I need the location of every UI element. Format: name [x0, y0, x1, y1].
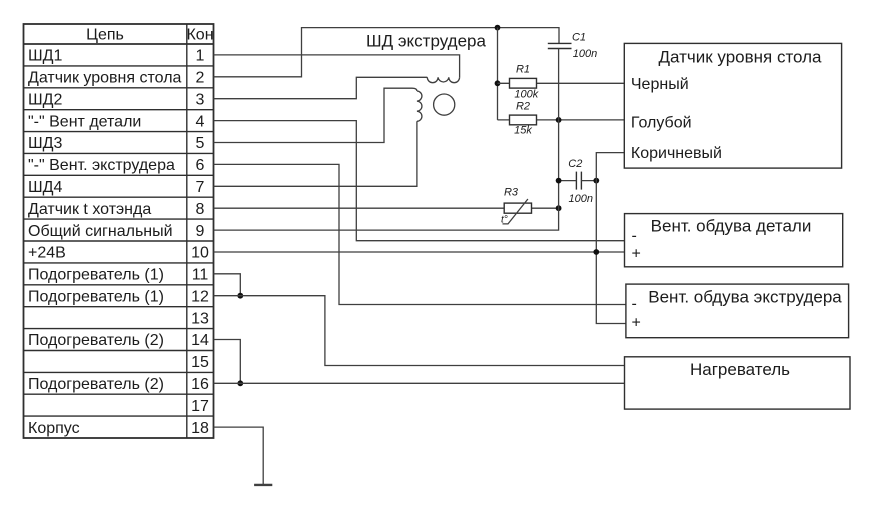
svg-text:Голубой: Голубой: [631, 115, 692, 132]
svg-text:13: 13: [191, 310, 209, 327]
wire pin12 heater1 to heater box: [214, 296, 625, 366]
wire pin2 to top rail and C1: [214, 28, 560, 77]
svg-text:-: -: [632, 296, 637, 313]
svg-text:4: 4: [196, 113, 205, 130]
svg-text:16: 16: [191, 376, 209, 393]
svg-text:Черный: Черный: [631, 76, 689, 93]
svg-text:R2: R2: [516, 101, 530, 113]
svg-text:15k: 15k: [514, 125, 532, 137]
svg-text:Вент. обдува детали: Вент. обдува детали: [651, 217, 812, 236]
svg-text:Общий сигнальный: Общий сигнальный: [28, 223, 173, 240]
svg-text:Коричневый: Коричневый: [631, 145, 722, 162]
svg-text:-: -: [632, 228, 637, 245]
connector table frame: [24, 24, 214, 438]
motor coil A (horizontal winding): [427, 77, 459, 82]
svg-text:Датчик t хотэнда: Датчик t хотэнда: [28, 201, 151, 218]
capacitor C1: [548, 32, 597, 120]
svg-text:2: 2: [196, 70, 205, 87]
svg-text:100n: 100n: [569, 193, 593, 205]
svg-text:ШД4: ШД4: [28, 179, 63, 196]
wire pin4 to fan1 minus: [214, 121, 625, 241]
wire pin16 heater2 to heater box: [214, 382, 625, 384]
table header labels: [86, 27, 213, 44]
motor coil B (vertical winding): [417, 91, 422, 121]
svg-text:9: 9: [196, 223, 205, 240]
wire pin7 to motor coil B bottom: [214, 121, 417, 186]
svg-text:"-" Вент детали: "-" Вент детали: [28, 113, 141, 130]
svg-text:R1: R1: [516, 64, 530, 76]
svg-text:ШД экструдера: ШД экструдера: [366, 32, 486, 51]
svg-text:Нагреватель: Нагреватель: [690, 360, 790, 379]
svg-text:5: 5: [196, 135, 205, 152]
svg-text:Подогреватель (1): Подогреватель (1): [28, 267, 164, 284]
svg-text:1: 1: [196, 48, 205, 65]
svg-text:ШД2: ШД2: [28, 91, 63, 108]
wire pin14 heater2: [214, 340, 241, 384]
svg-text:10: 10: [191, 245, 209, 262]
svg-text:17: 17: [191, 398, 209, 415]
svg-text:18: 18: [191, 420, 209, 437]
node R1 left junction: [495, 80, 501, 86]
wire pin5 to motor coil B top: [214, 88, 417, 142]
svg-text:ШД3: ШД3: [28, 135, 63, 152]
svg-text:C1: C1: [572, 32, 586, 44]
resistor R3 thermistor: [214, 187, 559, 226]
ground chassis symbol: [254, 484, 272, 486]
wire pin18 chassis: [214, 427, 264, 485]
motor rotor circle: [434, 94, 455, 115]
wire pin6 to fan2 minus: [214, 164, 626, 304]
svg-text:+24В: +24В: [28, 245, 66, 262]
svg-text:11: 11: [192, 267, 209, 284]
svg-text:15: 15: [191, 354, 209, 371]
node top rail junction: [495, 25, 501, 31]
svg-text:100k: 100k: [514, 89, 538, 101]
wire pin1 to motor coil A right end: [214, 55, 460, 77]
box fan extruder Вент. обдува экструдера: [626, 284, 849, 338]
node R2 right junction: [556, 117, 562, 123]
wire brown lead riser to fan2 plus: [596, 153, 626, 324]
svg-text:Датчик уровня стола: Датчик уровня стола: [28, 70, 182, 87]
svg-text:Подогреватель (2): Подогреватель (2): [28, 376, 164, 393]
svg-text:14: 14: [191, 332, 209, 349]
svg-text:6: 6: [196, 157, 205, 174]
node heater1 junction: [237, 293, 243, 299]
svg-text:7: 7: [196, 179, 205, 196]
node R3 right junction: [556, 205, 562, 211]
resistor R1: [498, 64, 625, 101]
svg-text:"-" Вент. экструдера: "-" Вент. экструдера: [28, 157, 175, 174]
box bed level sensor Датчик уровня стола: [624, 43, 841, 168]
svg-text:Цепь: Цепь: [86, 27, 124, 44]
node C2 left junction: [556, 178, 562, 184]
svg-text:12: 12: [191, 288, 209, 305]
table pin numbers column Кон: [191, 48, 209, 437]
wire pin9 common signal riser: [214, 120, 559, 230]
svg-text:3: 3: [196, 91, 205, 108]
node +24V junction: [593, 249, 599, 255]
node heater2 junction: [237, 380, 243, 386]
capacitor C2: [559, 158, 597, 205]
box fan part Вент. обдува детали: [625, 214, 843, 267]
svg-text:t°: t°: [501, 215, 508, 226]
svg-text:Корпус: Корпус: [28, 420, 80, 437]
svg-text:8: 8: [196, 201, 205, 218]
wire pin3 to motor coil A left end: [214, 77, 428, 98]
wire pin11 heater1: [214, 274, 241, 296]
box heater Нагреватель: [625, 357, 851, 409]
svg-text:ШД1: ШД1: [28, 48, 63, 65]
svg-text:Подогреватель (1): Подогреватель (1): [28, 288, 164, 305]
wire branch down to R1 R2: [497, 28, 499, 120]
svg-text:Датчик уровня стола: Датчик уровня стола: [658, 48, 822, 67]
svg-text:Подогреватель (2): Подогреватель (2): [28, 332, 164, 349]
svg-text:C2: C2: [568, 158, 582, 170]
wire pin10 +24V to fan1 plus: [214, 251, 625, 253]
svg-text:+: +: [632, 246, 641, 263]
svg-text:100n: 100n: [573, 48, 597, 60]
svg-text:Вент. обдува экструдера: Вент. обдува экструдера: [648, 288, 842, 307]
node C2 right junction: [593, 178, 599, 184]
svg-text:+: +: [632, 315, 641, 332]
svg-text:Кон: Кон: [186, 27, 213, 44]
table row texts column Цепь: [28, 48, 182, 437]
resistor R2: [498, 101, 625, 137]
svg-text:R3: R3: [504, 187, 519, 199]
